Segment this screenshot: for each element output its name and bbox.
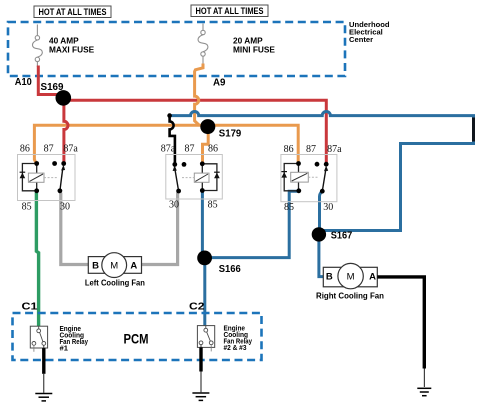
svg-text:A: A: [369, 272, 376, 283]
svg-text:#2 & #3: #2 & #3: [224, 345, 247, 352]
svg-text:87a: 87a: [161, 144, 176, 155]
svg-text:C1: C1: [22, 301, 39, 312]
svg-text:C2: C2: [189, 301, 205, 312]
svg-text:85: 85: [22, 201, 32, 212]
svg-text:MAXI FUSE: MAXI FUSE: [49, 44, 95, 54]
svg-text:HOT AT ALL TIMES: HOT AT ALL TIMES: [39, 7, 107, 18]
svg-text:B: B: [326, 272, 333, 283]
svg-text:87: 87: [306, 144, 316, 155]
svg-text:85: 85: [284, 202, 294, 213]
svg-text:PCM: PCM: [124, 332, 149, 347]
svg-text:30: 30: [169, 199, 179, 210]
svg-text:Right Cooling Fan: Right Cooling Fan: [316, 291, 384, 300]
svg-text:A10: A10: [15, 77, 32, 88]
svg-text:Center: Center: [349, 35, 373, 44]
svg-text:85: 85: [208, 199, 218, 210]
svg-text:HOT AT ALL TIMES: HOT AT ALL TIMES: [196, 6, 264, 17]
svg-text:87a: 87a: [327, 144, 342, 155]
svg-text:#1: #1: [60, 346, 69, 353]
svg-text:Left Cooling Fan: Left Cooling Fan: [85, 278, 145, 287]
svg-text:B: B: [92, 260, 99, 271]
svg-text:86: 86: [284, 144, 294, 155]
svg-text:MINI FUSE: MINI FUSE: [233, 44, 275, 54]
svg-text:30: 30: [323, 202, 333, 213]
svg-text:S166: S166: [219, 264, 241, 275]
svg-text:S169: S169: [41, 82, 64, 93]
svg-text:M: M: [347, 272, 355, 283]
svg-text:86: 86: [208, 143, 218, 154]
svg-text:87: 87: [185, 144, 195, 155]
svg-text:S179: S179: [219, 129, 242, 140]
svg-text:86: 86: [20, 144, 30, 155]
svg-text:M: M: [110, 260, 118, 271]
svg-text:S167: S167: [331, 231, 353, 242]
svg-text:87a: 87a: [63, 144, 78, 155]
svg-text:87: 87: [44, 144, 54, 155]
svg-text:30: 30: [60, 201, 70, 212]
svg-text:A: A: [130, 260, 137, 271]
svg-text:A9: A9: [213, 77, 226, 88]
